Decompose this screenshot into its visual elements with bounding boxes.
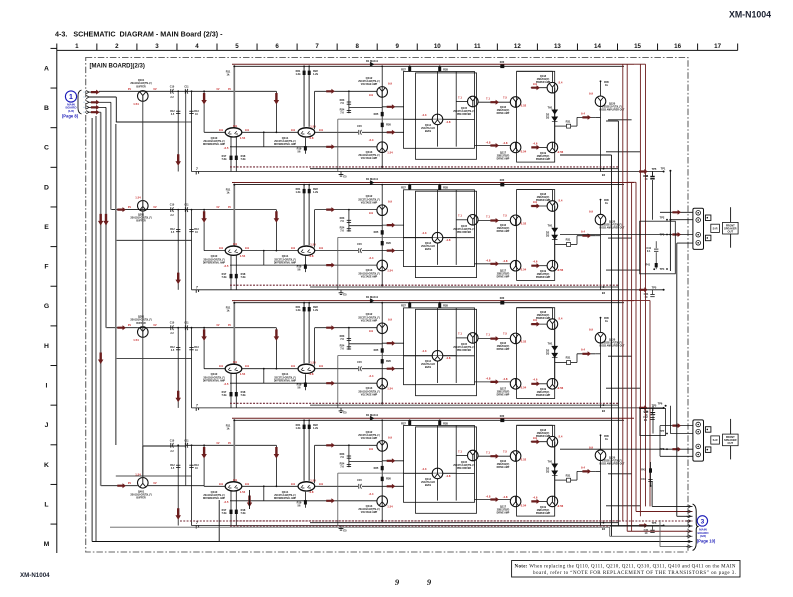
svg-text:0V: 0V	[153, 481, 156, 485]
svg-text:[MAIN BOARD](2/3): [MAIN BOARD](2/3)	[90, 64, 145, 70]
svg-text:1.54: 1.54	[135, 472, 141, 476]
svg-text:C: C	[44, 145, 49, 152]
svg-text:1.54: 1.54	[133, 102, 139, 106]
svg-text:TP1: TP1	[661, 166, 666, 170]
svg-text:A: A	[44, 65, 49, 72]
channel 4 input feed arrow	[101, 485, 138, 487]
output filter network 1	[640, 221, 676, 274]
svg-text:9: 9	[427, 577, 432, 587]
svg-text:E: E	[44, 224, 49, 231]
svg-text:R42: R42	[641, 469, 646, 472]
buffer rail vertical	[142, 97, 144, 479]
svg-text:(1/3): (1/3)	[68, 109, 74, 113]
channel 1 input wire	[99, 90, 186, 92]
channel 2 input feed arrow	[111, 209, 137, 211]
speaker label box CN3	[723, 434, 739, 446]
CN2 feed arrows	[660, 211, 693, 213]
main board dash-dot border	[86, 58, 688, 553]
CN2 label box	[711, 224, 720, 232]
left coordinate ruler	[44, 48, 57, 553]
svg-text:0V: 0V	[153, 323, 156, 327]
svg-text:5: 5	[235, 43, 239, 50]
ch1 return jog	[116, 121, 178, 123]
connector pins	[83, 91, 89, 114]
svg-text:2SA1162-GR(T5L,F): 2SA1162-GR(T5L,F)	[130, 217, 152, 220]
svg-text:TP3: TP3	[660, 232, 665, 236]
svg-text:0V: 0V	[128, 481, 131, 485]
svg-text:S-R: S-R	[713, 438, 718, 442]
svg-text:9: 9	[395, 43, 399, 50]
svg-text:0V: 0V	[128, 323, 131, 327]
channel 4 input wire	[148, 485, 204, 487]
svg-text:I: I	[46, 383, 48, 390]
svg-text:2: 2	[115, 43, 119, 50]
svg-text:0V: 0V	[153, 205, 156, 209]
input arrows	[89, 91, 100, 93]
svg-text:16: 16	[674, 43, 681, 50]
svg-text:3: 3	[155, 43, 159, 50]
CN3 terminal squares	[705, 427, 711, 433]
svg-text:1: 1	[69, 94, 73, 101]
svg-text:1: 1	[75, 43, 79, 50]
connector CN1 circled 1	[65, 91, 76, 102]
svg-text:8: 8	[355, 43, 359, 50]
bias rail vertical	[185, 91, 187, 485]
speaker connector CN3	[693, 420, 704, 461]
bottom harness wires	[651, 481, 653, 506]
svg-text:TP8: TP8	[660, 447, 665, 451]
svg-text:G: G	[44, 303, 49, 310]
CN3 pin wires	[669, 406, 671, 434]
svg-text:0.1: 0.1	[647, 249, 651, 253]
speaker connector CN2	[693, 208, 704, 249]
channel 3 input wire	[138, 327, 186, 329]
svg-text:J: J	[45, 422, 49, 429]
svg-text:BUFFER: BUFFER	[136, 323, 146, 325]
top coordinate ruler	[57, 43, 738, 50]
supply down arrows	[98, 214, 104, 226]
svg-text:6: 6	[275, 43, 279, 50]
ch4 aux down arrow	[247, 496, 253, 508]
harness brace	[693, 504, 698, 551]
amplifier channel 1	[116, 59, 665, 181]
svg-text:OUT: OUT	[728, 230, 734, 234]
svg-text:OUT: OUT	[728, 441, 734, 445]
pin2 wire	[89, 96, 116, 98]
svg-text:1.54: 1.54	[133, 338, 139, 342]
svg-text:7: 7	[315, 43, 319, 50]
svg-text:12: 12	[514, 43, 521, 50]
svg-text:M: M	[44, 541, 50, 548]
harness pin chevrons	[687, 505, 691, 548]
svg-text:Q101: Q101	[138, 78, 145, 82]
svg-text:F: F	[44, 264, 48, 271]
svg-text:11: 11	[474, 43, 481, 50]
svg-text:XM-N1004: XM-N1004	[20, 572, 50, 579]
supply bus verticals	[611, 155, 613, 536]
antenna line CN3	[730, 419, 732, 434]
CN3 label box	[711, 436, 720, 444]
svg-text:(Page 10): (Page 10)	[697, 539, 716, 544]
svg-text:TP2: TP2	[660, 216, 665, 220]
svg-text:D: D	[44, 184, 49, 191]
input transistor Q201	[138, 201, 149, 212]
svg-text:XM-N1004: XM-N1004	[729, 10, 771, 20]
svg-text:4-3. SCHEMATIC DIAGRAM - MA: 4-3. SCHEMATIC DIAGRAM - MAIN Board (2/3…	[55, 30, 223, 39]
svg-text:10: 10	[434, 43, 441, 50]
CN2 pin wires	[669, 171, 671, 271]
svg-text:0V: 0V	[128, 87, 131, 91]
left feed verticals	[95, 116, 97, 542]
speaker label box CN2	[723, 222, 739, 234]
svg-text:(3/3): (3/3)	[700, 534, 706, 538]
svg-text:Q301: Q301	[138, 314, 145, 318]
input transistor Q301	[138, 327, 149, 338]
bus corner links	[634, 63, 646, 65]
connector circled 3	[697, 516, 707, 526]
svg-text:TP6: TP6	[658, 401, 663, 405]
svg-text:K: K	[44, 462, 49, 469]
cap at bus top	[652, 171, 654, 176]
svg-text:13: 13	[554, 43, 561, 50]
svg-text:BUFFER: BUFFER	[136, 221, 146, 223]
svg-text:0V: 0V	[128, 205, 131, 209]
svg-text:L: L	[44, 501, 48, 508]
svg-text:TP7: TP7	[660, 429, 665, 433]
antenna line CN2	[730, 207, 732, 222]
output filter network 2	[640, 409, 666, 436]
input transistor Q401	[138, 478, 149, 489]
svg-text:S-R: S-R	[713, 227, 718, 231]
svg-text:C44: C44	[641, 478, 646, 481]
CN2 terminal squares	[705, 215, 711, 221]
svg-text:B: B	[44, 105, 49, 112]
svg-text:1.54: 1.54	[135, 195, 141, 199]
amplifier channel 4	[116, 413, 665, 535]
svg-text:0.1: 0.1	[644, 419, 648, 422]
svg-text:Q401: Q401	[138, 489, 145, 493]
svg-text:14: 14	[594, 43, 601, 50]
svg-text:C33: C33	[643, 174, 648, 178]
amplifier channel 2	[116, 177, 665, 299]
svg-text:0V: 0V	[153, 87, 156, 91]
channel 2 input wire	[138, 209, 186, 211]
svg-text:Note: When replacing the Q110: Note: When replacing the Q110, Q111, Q21…	[515, 564, 736, 569]
svg-text:BUFFER: BUFFER	[136, 86, 146, 88]
svg-text:2SA1162-GR(T5L,F): 2SA1162-GR(T5L,F)	[130, 319, 152, 322]
svg-text:15: 15	[634, 43, 641, 50]
input transistor Q101	[138, 91, 149, 102]
svg-text:TP4: TP4	[660, 267, 665, 271]
svg-text:R41: R41	[645, 263, 650, 267]
svg-text:4: 4	[195, 43, 199, 50]
CN3 feed arrows	[660, 425, 693, 427]
ground return loop	[91, 118, 93, 542]
note box	[512, 561, 740, 578]
cable brace	[78, 90, 82, 114]
amplifier channel 3	[116, 295, 665, 417]
svg-text:17: 17	[714, 43, 721, 50]
svg-text:9: 9	[395, 577, 400, 587]
svg-text:3: 3	[701, 518, 705, 525]
Q401 collector up-link	[142, 446, 144, 478]
svg-text:2SA1162-GR(T5L,F): 2SA1162-GR(T5L,F)	[130, 82, 152, 85]
supply down arrow low	[98, 353, 104, 365]
svg-text:BUFFER: BUFFER	[136, 498, 146, 500]
svg-text:(Page 8): (Page 8)	[62, 113, 79, 118]
svg-text:board, refer to “NOTE FOR REPL: board, refer to “NOTE FOR REPLACEMENT OF…	[533, 570, 736, 576]
svg-text:H: H	[44, 343, 49, 350]
svg-text:Q201: Q201	[138, 212, 145, 216]
CN3 damping parts	[650, 462, 652, 486]
mid bus joins	[560, 154, 612, 156]
svg-text:2SA1162-GR(T5L,F): 2SA1162-GR(T5L,F)	[130, 494, 152, 497]
channel 3 input feed arrow	[106, 327, 138, 329]
svg-text:C34: C34	[644, 410, 649, 414]
